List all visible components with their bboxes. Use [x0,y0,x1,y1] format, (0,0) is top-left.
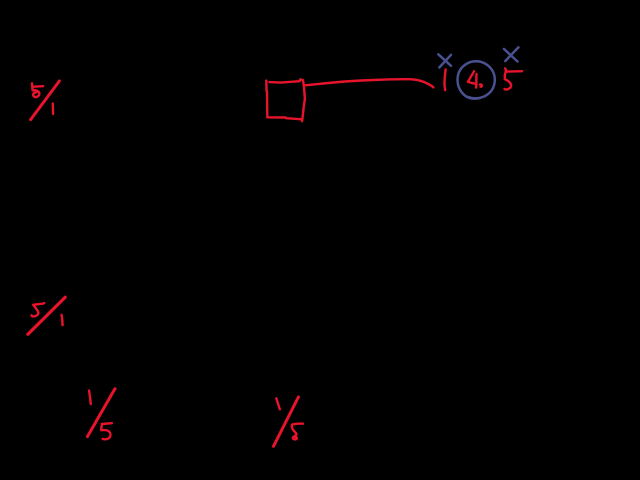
square [266,79,305,121]
fraction F1 numerator 5 (top-left) [32,83,43,97]
fraction F3 denominator 5 [101,423,112,439]
label 1 (right of line) [444,69,445,90]
fraction F4 numerator 1 (bottom-middle) [276,398,280,409]
connector line [306,79,434,87]
fraction F3 slash [87,389,115,437]
digit 4 inside circle [468,71,482,87]
fraction F4 denominator 5 [292,424,303,440]
fraction F4 slash [274,397,299,446]
fraction F1 denominator 1 [52,103,55,114]
digit 5 (right of circle) [505,68,523,89]
circle around 4 (blue) [458,61,495,98]
X mark right (blue) [504,47,519,61]
fraction F1 slash [31,81,60,120]
fraction F3 numerator 1 (bottom-left) [89,391,91,404]
fraction F2 slash [28,297,65,334]
fraction F2 numerator 5 (middle-left) [32,303,45,316]
X mark left (blue) [438,54,451,67]
fraction F2 denominator 1 [62,315,63,325]
